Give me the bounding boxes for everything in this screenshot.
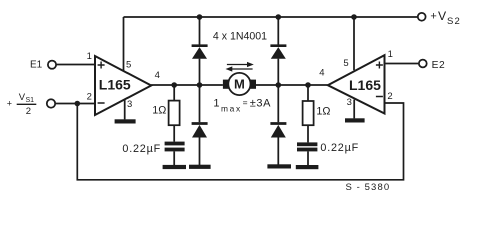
label 4 x 1N4001	[213, 30, 267, 42]
diode D3 (lower left 1N4001)	[192, 124, 208, 138]
node junction on VS1/2 wire	[75, 101, 81, 107]
node junction output U2 at diode column	[276, 82, 282, 88]
ground of D3	[189, 165, 211, 169]
svg-text:4: 4	[319, 68, 324, 79]
wire E2 to U2 pin 1	[385, 63, 419, 65]
label 1 ohm left	[152, 105, 166, 117]
svg-text:max: max	[221, 104, 242, 114]
wire pin 5 of U1 to rail	[123, 17, 125, 71]
svg-text:S - 5380: S - 5380	[346, 182, 391, 193]
wire diode column D2 upper	[277, 17, 279, 85]
svg-text:4 x 1N4001: 4 x 1N4001	[213, 30, 267, 42]
wire pin 5 of U2 to rail	[353, 17, 355, 70]
svg-text:0.22µF: 0.22µF	[320, 142, 359, 154]
fraction bar of VS1/2	[17, 103, 37, 105]
wire C2 to ground	[307, 151, 309, 165]
terminal +VS2	[418, 13, 426, 21]
capacitor C2 0.22uF	[297, 142, 317, 151]
wire R1 to C1	[173, 125, 175, 141]
svg-text:M: M	[234, 77, 245, 92]
wire diode column D4 lower right	[277, 85, 279, 165]
svg-text:0.22µF: 0.22µF	[122, 143, 161, 155]
wire pin 3 of U1 to ground	[124, 99, 126, 119]
node junction output U1 at R1	[171, 82, 177, 88]
pin number 2 of U2	[387, 91, 392, 102]
svg-text:S1: S1	[26, 97, 35, 104]
diode D2 (upper right 1N4001)	[270, 46, 286, 59]
terminal +VS1/2	[47, 99, 55, 107]
svg-text:=: =	[243, 98, 248, 108]
label E2	[432, 60, 446, 71]
node junction on rail at D1	[197, 14, 203, 20]
svg-text:1: 1	[388, 49, 393, 60]
svg-text:2: 2	[387, 91, 392, 102]
label +VS1/2	[7, 92, 34, 117]
label 0.22uF right	[320, 142, 359, 154]
svg-text:±3A: ±3A	[250, 97, 271, 109]
node junction output U1 at diode column	[197, 82, 203, 88]
label L165 right	[349, 77, 381, 93]
capacitor C1 0.22uF	[165, 142, 185, 152]
pin number 3 of U1	[127, 99, 132, 110]
svg-text:E2: E2	[432, 60, 446, 71]
svg-text:E1: E1	[30, 60, 43, 71]
svg-text:2: 2	[26, 106, 31, 117]
resistor R1 1 ohm	[169, 101, 180, 126]
diode D4 (lower right 1N4001)	[270, 124, 286, 138]
pin number 4 of U1	[155, 70, 160, 81]
arrow left above motor	[226, 66, 253, 71]
wire diode column D3 lower left	[199, 85, 201, 165]
label M of motor	[234, 77, 245, 92]
svg-text:L165: L165	[349, 77, 381, 93]
ground of C1	[163, 165, 186, 169]
node junction output U2 at R2	[305, 82, 311, 88]
svg-text:3: 3	[127, 99, 132, 110]
wire top supply rail	[124, 16, 418, 18]
ground of U2	[345, 118, 365, 122]
motor M	[223, 73, 256, 95]
node junction on rail at U2 pin 5	[351, 14, 357, 20]
label 0.22uF left	[122, 143, 161, 155]
pin number 5 of U2	[343, 58, 348, 69]
svg-text:L165: L165	[99, 77, 131, 93]
label S-5380	[346, 182, 391, 193]
wire C1 to ground	[173, 151, 175, 165]
label E1	[30, 60, 43, 71]
wire output U1 to motor	[151, 84, 223, 86]
wire E1 to U1 pin 1	[56, 64, 95, 66]
arrow right above motor	[227, 62, 254, 67]
pin number 3 of U2	[347, 97, 352, 108]
svg-text:1: 1	[87, 51, 92, 62]
svg-text:1: 1	[213, 97, 219, 109]
label L165 left	[99, 77, 131, 93]
pin number 1 of U2	[388, 49, 393, 60]
label 1 ohm right	[316, 106, 330, 118]
wire R1 to output node	[173, 85, 175, 101]
label Imax = ±3A	[213, 97, 271, 113]
op-amp U1 (L165 left)	[95, 56, 151, 115]
wire pin 3 of U2 to ground	[353, 100, 355, 119]
svg-text:5: 5	[343, 58, 348, 69]
op-amp U2 (L165 right)	[328, 55, 385, 113]
node junction on rail at D2	[276, 14, 282, 20]
svg-text:1Ω: 1Ω	[152, 105, 166, 117]
svg-text:3: 3	[347, 97, 352, 108]
pin number 1 of U1	[87, 51, 92, 62]
svg-text:1Ω: 1Ω	[316, 106, 330, 118]
terminal E1	[48, 61, 56, 69]
svg-text:S2: S2	[447, 16, 461, 27]
pin number 2 of U1	[87, 92, 92, 103]
pin number 5 of U1	[126, 60, 131, 71]
wire output U2 to motor	[256, 84, 328, 86]
wire R2 to output node	[307, 85, 309, 101]
resistor R2 1 ohm	[303, 101, 314, 125]
pin number 4 of U2	[319, 68, 324, 79]
svg-text:+: +	[430, 11, 436, 23]
wire VS1/2 to U1 pin 2	[55, 103, 95, 105]
diode D1 (upper left 1N4001)	[192, 46, 208, 59]
label +VS2	[430, 9, 461, 27]
svg-text:5: 5	[126, 60, 131, 71]
wire feedback bottom rail	[77, 103, 403, 180]
ground of C2	[296, 165, 319, 169]
wire R2 to C2	[307, 125, 309, 142]
terminal E2	[419, 60, 427, 68]
svg-text:+: +	[7, 99, 12, 109]
svg-text:V: V	[438, 9, 447, 23]
ground of U1	[115, 119, 136, 123]
wire diode column D1 upper	[199, 17, 201, 85]
svg-text:2: 2	[87, 92, 92, 103]
svg-text:4: 4	[155, 70, 160, 81]
ground of D4	[267, 164, 291, 168]
